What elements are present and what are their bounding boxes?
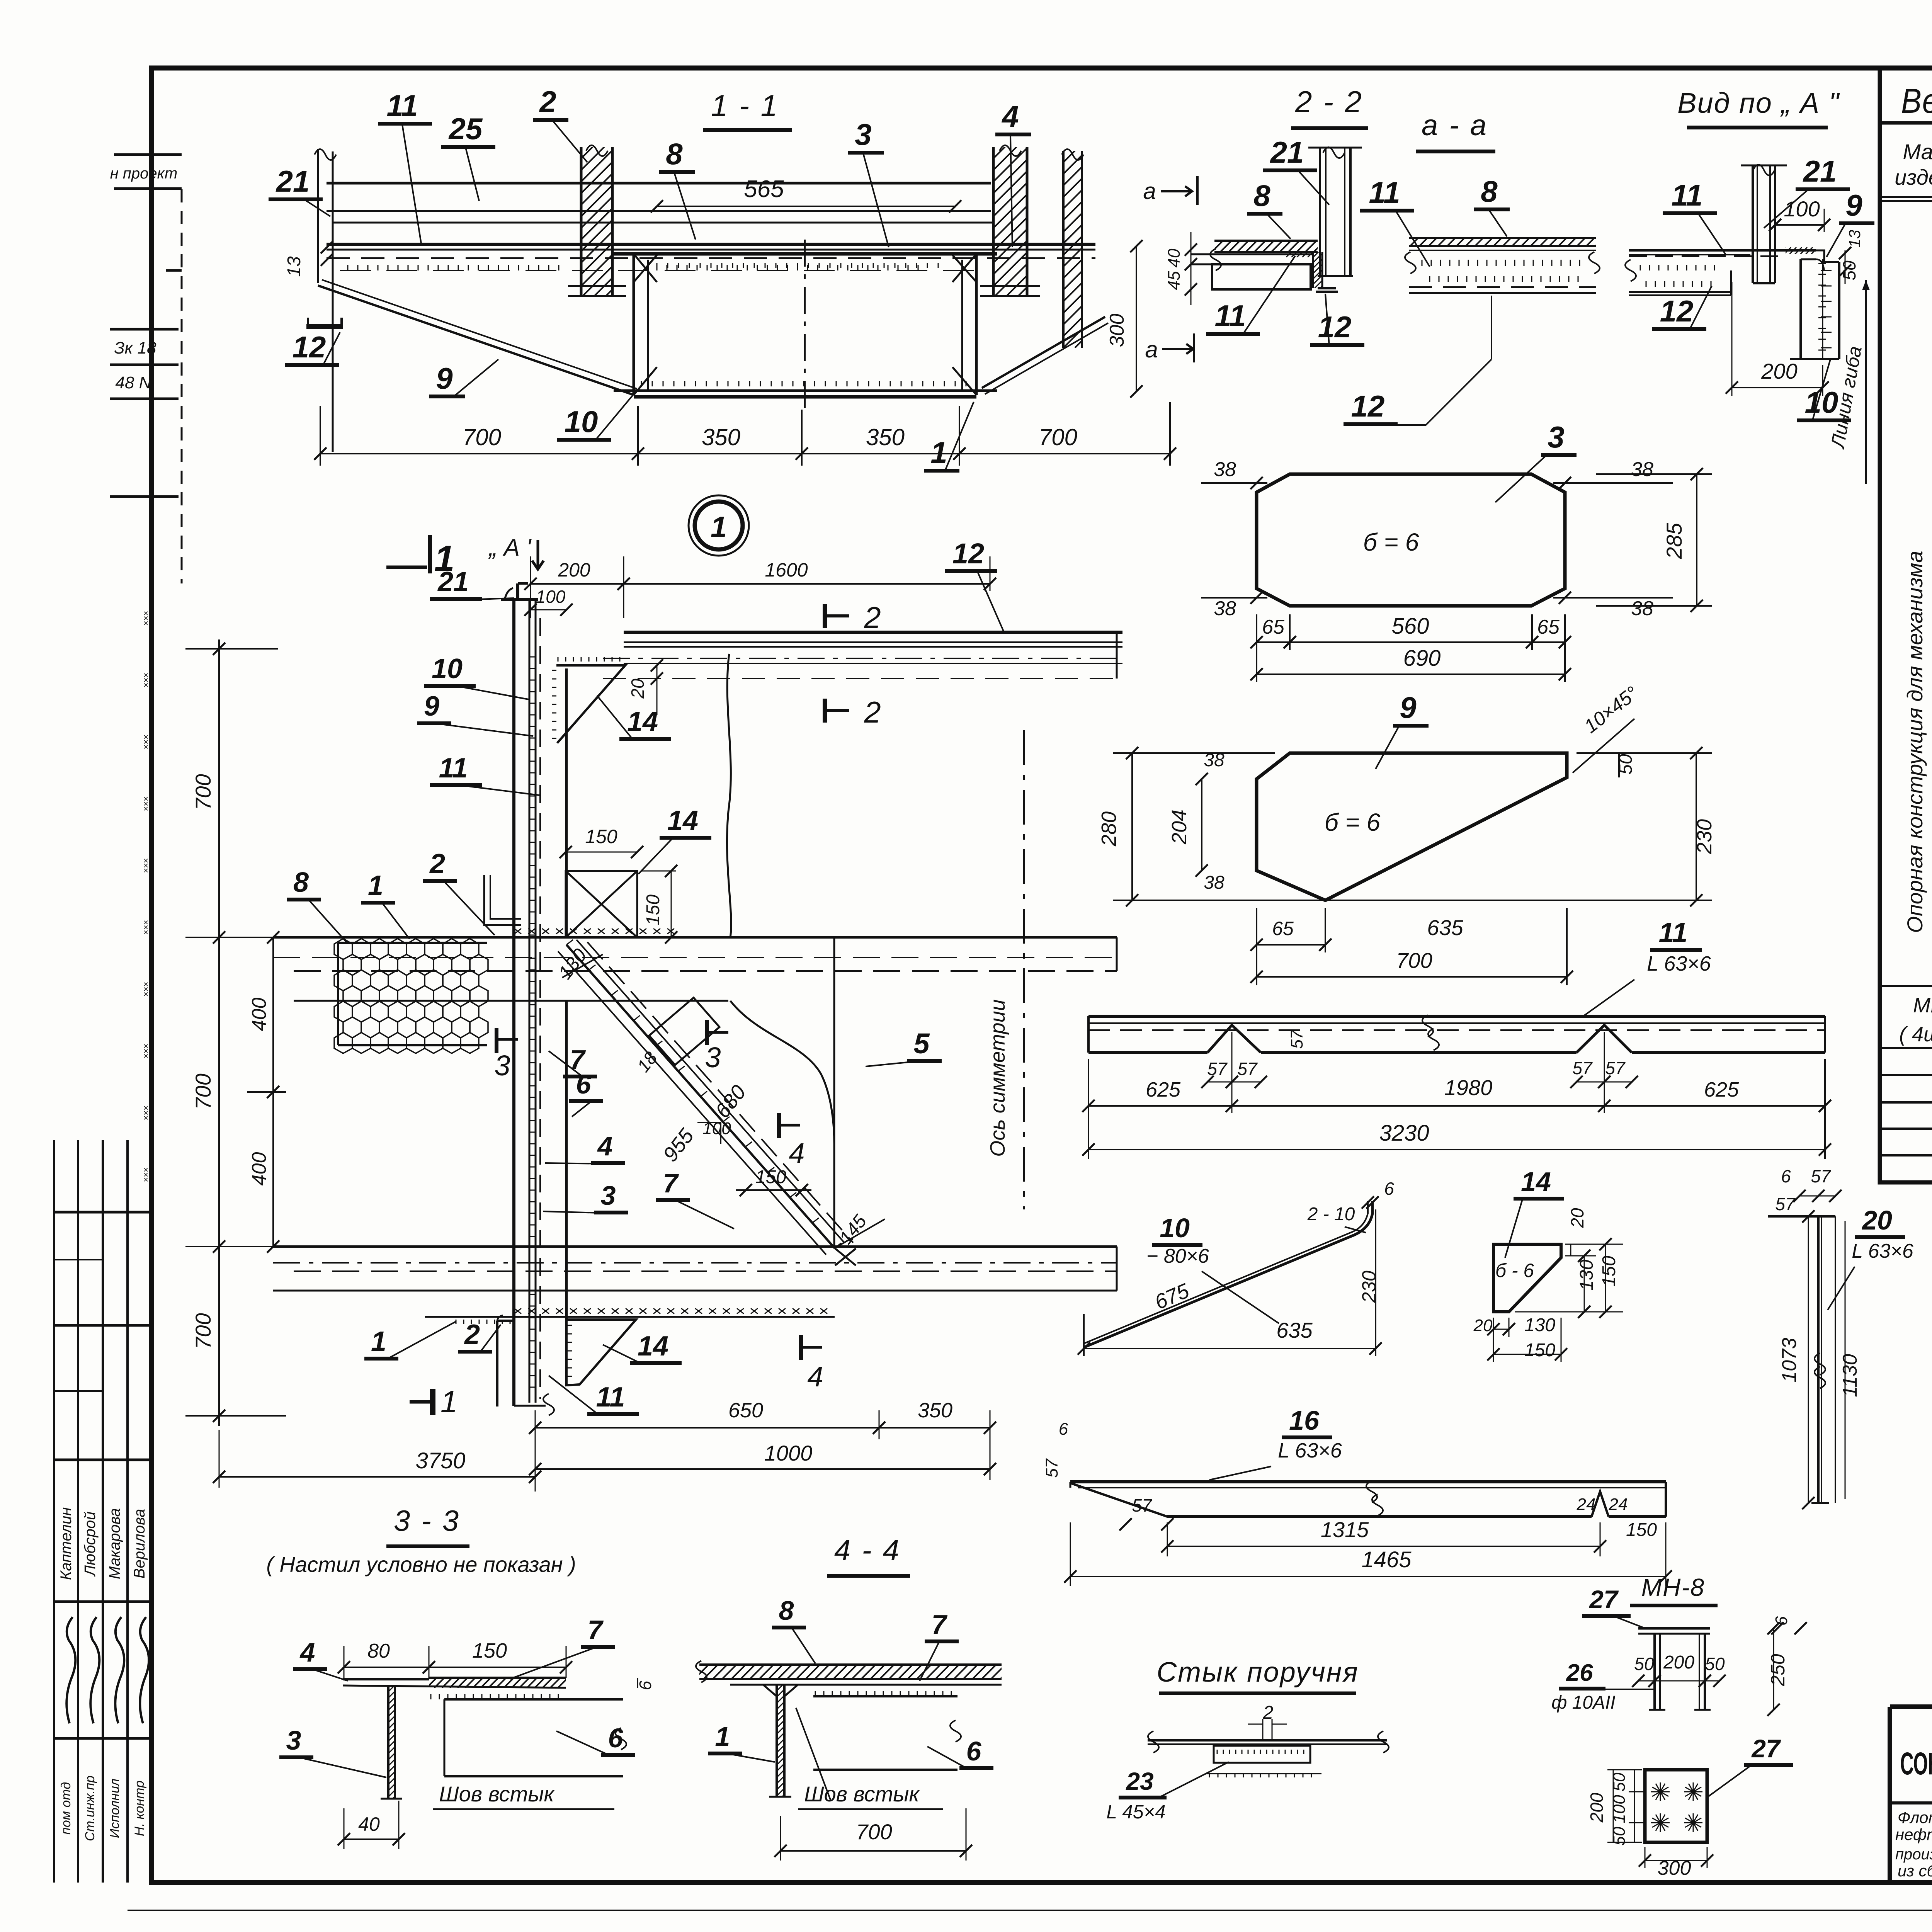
svg-text:1: 1 bbox=[368, 870, 383, 901]
svg-text:14: 14 bbox=[638, 1331, 668, 1362]
svg-text:a: a bbox=[1143, 178, 1156, 204]
svg-text:200: 200 bbox=[1761, 359, 1797, 383]
svg-text:Опорная конструкция для ме: Опорная конструкция для механизма bbox=[1903, 551, 1927, 933]
svg-text:20: 20 bbox=[1861, 1205, 1892, 1235]
svg-text:3 - 3: 3 - 3 bbox=[394, 1505, 460, 1537]
svg-text:560: 560 bbox=[1392, 614, 1429, 639]
svg-text:24: 24 bbox=[1609, 1495, 1628, 1514]
svg-text:1315: 1315 bbox=[1321, 1517, 1369, 1542]
svg-text:200: 200 bbox=[1587, 1793, 1607, 1823]
svg-text:700: 700 bbox=[191, 1313, 215, 1349]
svg-text:3: 3 bbox=[705, 1041, 721, 1073]
svg-text:65: 65 bbox=[1537, 616, 1560, 638]
svg-text:24: 24 bbox=[1577, 1495, 1596, 1514]
svg-text:2 - 10: 2 - 10 bbox=[1307, 1204, 1355, 1225]
svg-text:300: 300 bbox=[1106, 314, 1128, 347]
svg-text:200: 200 bbox=[1663, 1652, 1694, 1673]
svg-text:2: 2 bbox=[864, 695, 881, 729]
svg-text:Н. контр: Н. контр bbox=[132, 1781, 147, 1836]
svg-text:13: 13 bbox=[284, 256, 304, 277]
svg-text:×××: ××× bbox=[141, 920, 151, 935]
svg-text:7: 7 bbox=[663, 1168, 679, 1198]
svg-text:×××: ××× bbox=[141, 673, 151, 688]
svg-text:20: 20 bbox=[628, 679, 648, 699]
svg-text:8: 8 bbox=[779, 1595, 794, 1626]
svg-text:8: 8 bbox=[666, 137, 683, 171]
svg-text:40: 40 bbox=[1165, 248, 1184, 267]
svg-text:7: 7 bbox=[932, 1609, 948, 1639]
svg-text:Ведомость элементов на одно: Ведомость элементов на одно изделие bbox=[1901, 82, 1932, 121]
svg-text:7: 7 bbox=[588, 1615, 604, 1645]
svg-text:1: 1 bbox=[440, 1384, 458, 1419]
svg-text:9: 9 bbox=[424, 691, 439, 722]
svg-text:4: 4 bbox=[299, 1637, 315, 1667]
svg-text:21: 21 bbox=[1803, 154, 1837, 188]
svg-text:280: 280 bbox=[1097, 811, 1121, 847]
svg-text:700: 700 bbox=[1039, 424, 1077, 450]
svg-text:150: 150 bbox=[1626, 1520, 1657, 1540]
svg-text:57: 57 bbox=[1287, 1029, 1306, 1049]
svg-text:230: 230 bbox=[1358, 1270, 1380, 1303]
svg-text:a: a bbox=[1145, 337, 1158, 362]
svg-text:изделия: изделия bbox=[1895, 165, 1932, 189]
svg-text:285: 285 bbox=[1662, 522, 1686, 559]
svg-text:б = 6: б = 6 bbox=[1363, 528, 1419, 556]
svg-text:8: 8 bbox=[293, 867, 309, 898]
svg-text:80: 80 bbox=[367, 1640, 390, 1662]
svg-text:×××: ××× bbox=[141, 796, 151, 811]
svg-text:14: 14 bbox=[627, 706, 658, 737]
svg-text:10: 10 bbox=[1160, 1213, 1190, 1243]
svg-text:нефтесодержащих сточных вод: нефтесодержащих сточных вод bbox=[1895, 1825, 1932, 1844]
svg-text:635: 635 bbox=[1276, 1318, 1313, 1342]
svg-text:1130: 1130 bbox=[1839, 1354, 1861, 1397]
svg-text:21: 21 bbox=[276, 164, 310, 198]
svg-text:ф 10АII: ф 10АII bbox=[1551, 1692, 1616, 1713]
svg-text:Верилова: Верилова bbox=[131, 1509, 148, 1578]
svg-text:1465: 1465 bbox=[1361, 1547, 1412, 1572]
svg-text:×××: ××× bbox=[141, 735, 151, 750]
svg-text:3: 3 bbox=[286, 1725, 301, 1755]
svg-text:20: 20 bbox=[1473, 1316, 1493, 1335]
svg-text:700: 700 bbox=[856, 1820, 892, 1844]
svg-text:Стык поручня: Стык поручня bbox=[1156, 1657, 1359, 1688]
svg-text:4: 4 bbox=[597, 1131, 613, 1161]
svg-text:57: 57 bbox=[1572, 1058, 1593, 1078]
svg-text:700: 700 bbox=[463, 424, 501, 450]
svg-text:6: 6 bbox=[608, 1723, 624, 1753]
svg-text:МН8: МН8 bbox=[1913, 994, 1932, 1017]
svg-text:11: 11 bbox=[1672, 178, 1703, 212]
svg-text:а - а: а - а bbox=[1422, 109, 1488, 142]
svg-text:1073: 1073 bbox=[1778, 1338, 1801, 1383]
svg-text:11: 11 bbox=[1659, 917, 1688, 948]
svg-text:„ А ': „ А ' bbox=[488, 534, 532, 561]
svg-text:57: 57 bbox=[1207, 1059, 1228, 1079]
svg-text:16: 16 bbox=[1289, 1405, 1320, 1435]
svg-text:1980: 1980 bbox=[1444, 1075, 1493, 1100]
svg-text:150: 150 bbox=[755, 1167, 786, 1187]
svg-text:57: 57 bbox=[1043, 1458, 1061, 1478]
svg-text:700: 700 bbox=[1396, 948, 1432, 973]
svg-text:3: 3 bbox=[494, 1049, 510, 1082]
svg-text:50: 50 bbox=[1634, 1654, 1654, 1674]
svg-text:400: 400 bbox=[248, 998, 270, 1031]
svg-text:10: 10 bbox=[565, 405, 598, 439]
svg-text:L 63×6: L 63×6 bbox=[1852, 1240, 1913, 1262]
svg-text:12: 12 bbox=[1351, 389, 1385, 423]
svg-text:×××: ××× bbox=[141, 611, 151, 626]
svg-text:100: 100 bbox=[1784, 197, 1820, 221]
svg-text:635: 635 bbox=[1427, 915, 1463, 940]
svg-text:4 - 4: 4 - 4 bbox=[834, 1534, 901, 1567]
svg-text:×××: ××× bbox=[141, 1044, 151, 1059]
svg-text:400: 400 bbox=[248, 1152, 270, 1186]
svg-text:4: 4 bbox=[789, 1137, 804, 1169]
svg-text:12: 12 bbox=[1660, 294, 1694, 328]
svg-text:12: 12 bbox=[952, 537, 984, 570]
svg-text:( Настил условно не показ: ( Настил условно не показан ) bbox=[266, 1552, 576, 1577]
svg-text:50: 50 bbox=[1610, 1772, 1629, 1791]
svg-text:100: 100 bbox=[536, 587, 566, 607]
svg-text:57: 57 bbox=[1811, 1166, 1831, 1186]
svg-text:Ось симметрии: Ось симметрии bbox=[986, 999, 1009, 1156]
svg-text:48 N: 48 N bbox=[116, 373, 151, 392]
svg-text:100: 100 bbox=[1610, 1795, 1629, 1823]
svg-text:1000: 1000 bbox=[764, 1441, 813, 1465]
svg-text:9: 9 bbox=[1400, 690, 1417, 724]
svg-text:700: 700 bbox=[191, 1073, 215, 1109]
svg-text:4: 4 bbox=[807, 1361, 823, 1393]
svg-text:Флотатор для доочистки: Флотатор для доочистки bbox=[1898, 1808, 1932, 1827]
svg-text:565: 565 bbox=[744, 176, 784, 202]
svg-text:4: 4 bbox=[1001, 99, 1019, 133]
svg-text:производительностью 300куб.м в: производительностью 300куб.м в час bbox=[1895, 1846, 1932, 1863]
svg-text:38: 38 bbox=[1204, 872, 1225, 893]
svg-text:3230: 3230 bbox=[1379, 1121, 1429, 1146]
svg-text:650: 650 bbox=[728, 1399, 763, 1422]
svg-text:1600: 1600 bbox=[765, 559, 808, 581]
svg-text:21: 21 bbox=[1270, 135, 1304, 169]
svg-text:12: 12 bbox=[1318, 310, 1352, 344]
svg-text:Вид по „ А ": Вид по „ А " bbox=[1677, 87, 1840, 119]
svg-text:3: 3 bbox=[1548, 420, 1564, 454]
svg-text:9: 9 bbox=[1845, 188, 1862, 222]
svg-text:×××: ××× bbox=[141, 858, 151, 873]
svg-text:350: 350 bbox=[866, 424, 905, 450]
svg-text:5: 5 bbox=[913, 1027, 930, 1060]
svg-text:38: 38 bbox=[1631, 597, 1653, 620]
svg-text:8: 8 bbox=[1253, 179, 1270, 213]
svg-text:2 - 2: 2 - 2 bbox=[1295, 85, 1363, 119]
svg-text:57: 57 bbox=[1237, 1059, 1258, 1079]
svg-text:150: 150 bbox=[1524, 1340, 1555, 1361]
svg-text:38: 38 bbox=[1214, 597, 1236, 620]
svg-text:6: 6 bbox=[1781, 1166, 1791, 1186]
svg-text:б - 6: б - 6 bbox=[1495, 1260, 1534, 1281]
svg-text:204: 204 bbox=[1168, 810, 1191, 845]
svg-text:×××: ××× bbox=[141, 1105, 151, 1121]
svg-text:23: 23 bbox=[1126, 1767, 1153, 1795]
svg-text:625: 625 bbox=[1146, 1078, 1181, 1101]
svg-text:26: 26 bbox=[1566, 1660, 1593, 1686]
svg-text:50: 50 bbox=[1839, 260, 1859, 281]
svg-text:1: 1 bbox=[930, 435, 947, 469]
svg-text:Зк 18: Зк 18 bbox=[114, 338, 156, 357]
svg-text:25: 25 bbox=[448, 112, 483, 146]
svg-text:6: 6 bbox=[966, 1736, 982, 1766]
svg-text:б = 6: б = 6 bbox=[1325, 808, 1381, 836]
svg-text:13: 13 bbox=[1845, 230, 1864, 248]
svg-text:L 63×6: L 63×6 bbox=[1647, 952, 1711, 975]
svg-text:МН-8: МН-8 bbox=[1641, 1573, 1705, 1601]
svg-text:8: 8 bbox=[1481, 174, 1498, 208]
svg-text:27: 27 bbox=[1588, 1585, 1619, 1614]
svg-text:27: 27 bbox=[1751, 1734, 1781, 1763]
svg-text:150: 150 bbox=[472, 1639, 507, 1662]
svg-text:Каптелин: Каптелин bbox=[58, 1507, 75, 1580]
svg-text:×××: ××× bbox=[141, 982, 151, 997]
svg-text:11: 11 bbox=[1215, 299, 1246, 333]
svg-text:150: 150 bbox=[1599, 1256, 1619, 1287]
svg-text:20: 20 bbox=[1567, 1208, 1587, 1228]
svg-text:65: 65 bbox=[1262, 616, 1285, 638]
svg-text:L 63×6: L 63×6 bbox=[1278, 1439, 1342, 1462]
svg-text:Шов встык: Шов встык bbox=[804, 1782, 920, 1806]
svg-text:300: 300 bbox=[1658, 1857, 1691, 1879]
svg-text:700: 700 bbox=[191, 774, 215, 810]
svg-text:350: 350 bbox=[918, 1399, 952, 1422]
svg-text:2: 2 bbox=[539, 85, 556, 119]
svg-text:( 4шт ): ( 4шт ) bbox=[1899, 1023, 1932, 1046]
svg-text:3750: 3750 bbox=[415, 1448, 465, 1473]
svg-text:130: 130 bbox=[1524, 1315, 1555, 1335]
svg-text:СОЮЗВОДОКАНАЛПРОЕКТ: СОЮЗВОДОКАНАЛПРОЕКТ bbox=[1900, 1746, 1932, 1781]
svg-text:350: 350 bbox=[702, 424, 740, 450]
svg-text:57: 57 bbox=[1132, 1495, 1152, 1515]
svg-text:3: 3 bbox=[855, 117, 871, 151]
svg-text:11: 11 bbox=[387, 88, 418, 122]
svg-text:из сборного железобетона: из сборного железобетона bbox=[1898, 1862, 1932, 1880]
svg-text:690: 690 bbox=[1403, 646, 1441, 671]
svg-text:14: 14 bbox=[667, 805, 698, 836]
svg-text:38: 38 bbox=[1214, 458, 1236, 481]
svg-text:2: 2 bbox=[429, 849, 445, 879]
svg-text:10: 10 bbox=[432, 653, 463, 684]
svg-text:38: 38 bbox=[1631, 458, 1653, 481]
svg-text:130: 130 bbox=[1577, 1260, 1597, 1291]
svg-text:57: 57 bbox=[1775, 1194, 1796, 1214]
svg-text:Макарова: Макарова bbox=[106, 1508, 123, 1579]
svg-text:50: 50 bbox=[1705, 1654, 1725, 1674]
svg-text:3: 3 bbox=[601, 1180, 616, 1211]
svg-text:12: 12 bbox=[293, 330, 326, 364]
svg-text:40: 40 bbox=[358, 1813, 380, 1835]
svg-text:6: 6 bbox=[576, 1069, 592, 1099]
svg-text:6: 6 bbox=[1384, 1179, 1394, 1199]
svg-text:57: 57 bbox=[1605, 1058, 1626, 1078]
svg-text:1: 1 bbox=[711, 511, 727, 544]
svg-text:Ст.инж.пр: Ст.инж.пр bbox=[83, 1776, 97, 1841]
svg-text:пом отд: пом отд bbox=[59, 1782, 73, 1835]
svg-text:14: 14 bbox=[1521, 1167, 1551, 1197]
svg-text:Любсрой: Любсрой bbox=[82, 1512, 99, 1577]
svg-text:1 - 1: 1 - 1 bbox=[711, 88, 779, 122]
svg-text:250: 250 bbox=[1767, 1654, 1789, 1687]
svg-text:11: 11 bbox=[596, 1382, 625, 1413]
svg-text:150: 150 bbox=[585, 826, 617, 847]
svg-text:65: 65 bbox=[1272, 918, 1294, 939]
svg-text:Марка: Марка bbox=[1903, 139, 1932, 164]
svg-text:×××: ××× bbox=[141, 1167, 151, 1182]
svg-text:200: 200 bbox=[558, 559, 590, 581]
svg-text:45: 45 bbox=[1165, 271, 1184, 290]
svg-text:6: 6 bbox=[636, 1680, 655, 1690]
svg-text:6: 6 bbox=[1059, 1420, 1068, 1439]
svg-text:2: 2 bbox=[864, 600, 881, 634]
svg-text:625: 625 bbox=[1704, 1078, 1739, 1101]
svg-text:9: 9 bbox=[436, 361, 453, 395]
svg-text:21: 21 bbox=[437, 566, 469, 597]
svg-text:Исполнил: Исполнил bbox=[107, 1779, 122, 1838]
svg-text:Шов встык: Шов встык bbox=[439, 1782, 555, 1806]
svg-text:н проект: н проект bbox=[110, 165, 178, 182]
svg-text:L 45×4: L 45×4 bbox=[1106, 1801, 1165, 1823]
svg-text:− 80×6: − 80×6 bbox=[1146, 1245, 1209, 1267]
svg-text:1: 1 bbox=[715, 1721, 730, 1752]
svg-text:11: 11 bbox=[439, 753, 468, 784]
svg-text:38: 38 bbox=[1204, 750, 1225, 770]
svg-text:11: 11 bbox=[1369, 175, 1400, 209]
svg-text:1: 1 bbox=[371, 1326, 386, 1357]
svg-text:150: 150 bbox=[643, 895, 663, 925]
